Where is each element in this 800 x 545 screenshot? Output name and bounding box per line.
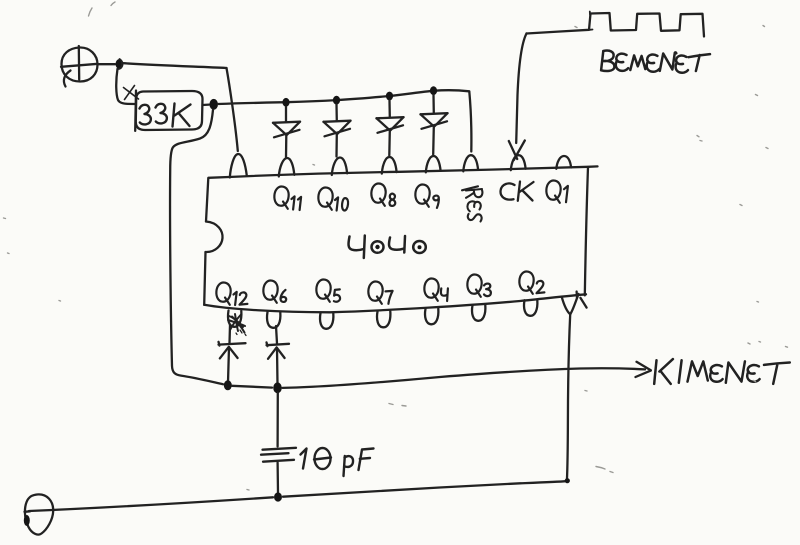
IC top pin arch RES [463, 155, 478, 171]
IC top pin arch Q8 [382, 157, 397, 174]
left tall wire from node B down to output rail [170, 110, 223, 384]
capacitor C1 plates [263, 448, 297, 450]
wire corner down to pin16 arch [227, 68, 238, 151]
pin label Q9 [415, 185, 439, 208]
IC bottom pin arch Q5 [320, 313, 333, 329]
KIMENET arrowhead [636, 362, 651, 377]
bottom rail [29, 481, 567, 511]
KIMENET label [654, 359, 790, 384]
connector J1 top-left [61, 46, 98, 87]
diode D5 under Q12 [219, 325, 246, 383]
wire node A to top corner [124, 63, 227, 68]
IC bottom pin arch Q7 [377, 311, 390, 327]
pin label Q7 [368, 282, 392, 304]
junction node D [273, 382, 282, 393]
RES pin label (rotated) [462, 186, 482, 221]
IC bottom pin arch Q2 [524, 300, 537, 316]
pin label Q12 [216, 283, 247, 306]
terminal J2 bottom-left [24, 494, 53, 534]
pin label Q11 [274, 187, 301, 211]
capacitor C1 lead top [276, 393, 278, 447]
IC top pin arch (supply from R1) [230, 154, 247, 178]
diode D4 [421, 86, 448, 154]
junction node E [274, 492, 282, 501]
junction node C [224, 380, 232, 390]
pin label Q8 [371, 184, 395, 206]
IC bottom pin arch Q6 [267, 312, 280, 328]
IC bottom pin arch Q3 [472, 305, 485, 321]
resistor R1 left lead bar [134, 91, 137, 131]
pin label Q4 [424, 279, 448, 302]
IC U1 body [209, 166, 598, 177]
output rail to KIMENET arrow [232, 368, 645, 388]
IC top pin arch Q11 [279, 158, 295, 177]
KIMENET vertical wire from Q pin [567, 315, 570, 481]
bus wire from node B to right [218, 90, 469, 104]
junction node A [116, 59, 124, 69]
junction node B (resistor output) [203, 103, 210, 106]
pin label Q6 [263, 281, 286, 303]
scribble x at resistor lead [124, 86, 139, 100]
IC top pin arch Q1 [556, 156, 571, 169]
IC top pin arch Q9 [426, 156, 441, 172]
wire node A down to resistor [116, 69, 134, 104]
IC bottom-right output pin (V shape) [562, 294, 579, 314]
pin label Q10 [318, 188, 348, 211]
CK arrowhead [509, 141, 525, 161]
pin label CK [501, 182, 534, 201]
IC top pin arch CK [511, 155, 526, 170]
IC top pin arch Q10 [332, 157, 347, 175]
IC left notch [206, 222, 223, 253]
CK wire from BEMENET [516, 34, 526, 144]
wire: bus corner down to RES pin [469, 92, 471, 152]
BEMENET square wave [527, 13, 705, 37]
capacitor value 10pF [301, 448, 374, 476]
IC bottom pin arch Q12 [228, 311, 241, 327]
diode D2 [324, 96, 351, 157]
IC bottom pin arch Q4 [425, 309, 438, 325]
BEMENET label [601, 51, 710, 73]
diode D1 [273, 98, 300, 158]
resistor R1 value 33K [140, 104, 191, 127]
pin label Q1t [546, 181, 568, 203]
pin label Q2 [519, 272, 544, 294]
IC center label 4040 [349, 236, 426, 259]
pin label Q5 [316, 280, 340, 302]
wire J1 to node A [98, 63, 115, 65]
capacitor C1 lead bottom [276, 463, 279, 494]
diode D6 under Q6 [267, 326, 290, 384]
scribble blob under Q12 pin [228, 314, 246, 336]
resistor R1 body [136, 91, 203, 130]
diode D3 [377, 92, 404, 156]
pin label Q3 [467, 275, 491, 297]
